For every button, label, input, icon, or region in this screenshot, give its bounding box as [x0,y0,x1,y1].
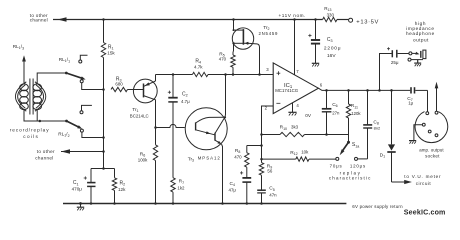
svg-text:S1a: S1a [352,142,360,148]
head core lines [29,79,31,115]
svg-text:Tr1: Tr1 [132,107,138,113]
resistor R3 680 [111,87,128,91]
svg-text:10k: 10k [301,150,309,155]
resistor R11 120k [348,90,350,104]
svg-text:12k: 12k [118,187,126,192]
svg-text:8n2: 8n2 [374,126,381,131]
svg-text:circuit: circuit [416,181,432,186]
capacitor C4 47u [242,177,251,179]
svg-text:470: 470 [234,155,242,160]
svg-text:3k3: 3k3 [291,125,299,130]
junction: to-other-channel node [102,150,105,153]
svg-text:R10: R10 [280,125,287,131]
resistor R12 10k [262,158,296,160]
record/replay head coil left [20,84,29,91]
svg-text:RL1/1: RL1/1 [59,57,70,64]
svg-text:channel: channel [30,17,48,22]
ground (bottom-left) [79,202,82,205]
svg-text:25μ: 25μ [391,60,399,65]
switch S1a [348,135,350,142]
transistor Tr2 2N5459 [232,28,253,49]
svg-text:7: 7 [296,69,299,74]
wire: IC1 output [318,88,410,90]
junction: C1/R2 node [102,167,105,170]
wire: Tr1 collector to Tr3 base (hop over C2 line) [154,126,157,129]
svg-text:coils: coils [23,134,39,139]
wire: pin 7 [294,20,296,76]
capacitor C6 27n [326,90,328,108]
socket ground [414,125,423,141]
svg-text:4.7k: 4.7k [194,64,203,69]
junction: R1/R3/RL1-1 node [102,88,105,91]
wire: C1/R2 node line [91,168,115,170]
wire: R3 to Tr1 base [128,89,144,91]
svg-text:2N5459: 2N5459 [259,31,279,36]
svg-text:BC214LC: BC214LC [130,113,149,118]
terminal +13.5V [349,18,353,22]
svg-text:to other: to other [37,149,55,154]
svg-text:120μs: 120μs [350,163,366,168]
svg-text:1k2: 1k2 [177,186,185,191]
svg-text:15k: 15k [107,50,115,55]
wire: head bottom leads [24,110,40,121]
wire: Tr1 emitter to IC1 pin3 [156,74,193,76]
svg-text:27n: 27n [332,111,340,116]
svg-text:47μ: 47μ [229,187,237,192]
svg-text:RL1/3: RL1/3 [13,44,24,51]
resistor R9 56 [259,163,263,176]
svg-text:socket: socket [425,153,440,158]
relay contact RL1/1 [65,72,68,75]
svg-text:characteristic: characteristic [329,176,372,181]
svg-text:C3: C3 [327,37,333,43]
svg-text:C2: C2 [182,91,188,97]
svg-text:C4: C4 [230,181,235,187]
svg-text:R11: R11 [351,103,358,109]
svg-text:headphone: headphone [406,31,435,36]
svg-text:6: 6 [320,83,323,88]
headphone jack [409,52,412,55]
svg-text:2200μ: 2200μ [324,46,341,52]
relay arm arrow RL1/3 [23,60,25,84]
svg-text:output: output [413,37,429,42]
svg-text:120k: 120k [351,111,361,116]
resistor R13 330 [323,17,337,21]
wire: socket output arrow [436,87,438,111]
svg-text:330: 330 [327,12,335,17]
svg-text:MC1741CG: MC1741CG [275,88,299,93]
svg-text:R8: R8 [235,148,240,154]
resistor R6 100k [155,128,157,145]
record/replay head coil right [33,84,42,91]
capacitor C7 1u [410,87,412,93]
svg-text:to V.U. meter: to V.U. meter [404,174,441,179]
capacitor C3 2200u 16V [314,18,317,21]
svg-text:0V: 0V [305,113,312,118]
resistor R8 470 [247,145,262,147]
capacitor C1 470u [90,169,92,183]
svg-text:16V: 16V [327,53,336,59]
wire: to other channel (top) arrowhead [58,17,67,22]
svg-text:3: 3 [266,67,269,72]
svg-text:impedance: impedance [406,26,434,31]
svg-text:R13: R13 [324,6,331,12]
node: 0V bottom bus [63,203,346,205]
wire: pin 2 + label [262,106,274,163]
svg-text:470μ: 470μ [72,187,83,192]
svg-text:680: 680 [115,81,123,86]
svg-text:4: 4 [296,103,299,108]
resistor R1 15k [101,43,105,58]
head flux arcs right [35,82,46,111]
diode D1 [391,90,393,144]
capacitor C8 8n2 [367,90,369,125]
svg-text:47n: 47n [269,192,277,197]
junction: RL1-2 node [102,136,105,139]
svg-text:record/replay: record/replay [10,127,50,132]
capacitor 25u headphone coupling [380,54,392,91]
svg-text:SeekIC.com: SeekIC.com [404,208,446,216]
svg-text:D1: D1 [380,153,385,159]
wire: head top-right lead [37,73,66,84]
capacitor C5 47n [257,189,266,191]
head flux arcs left [15,82,26,111]
svg-text:4.7μ: 4.7μ [181,99,190,104]
svg-text:1μ: 1μ [408,101,413,106]
svg-text:channel: channel [35,155,53,160]
svg-text:56: 56 [267,169,272,174]
svg-text:C1: C1 [73,180,79,186]
resistor R5 470 [231,55,235,67]
svg-text:Tr3: Tr3 [188,156,194,162]
svg-text:R2: R2 [120,180,126,186]
resistor R4 4.7k [192,72,208,76]
svg-text:+13·5V: +13·5V [356,20,379,26]
resistor R7 1k2 [171,178,175,192]
relay contact RL1/2 [65,120,68,123]
wire: feedback node vertical [260,133,263,136]
wire: pin 4 + ground 0V [292,103,294,112]
svg-text:C5: C5 [269,186,274,192]
wire: to V.U. meter [392,181,405,183]
transistor Tr3 MPSA12 [185,108,227,150]
op-amp IC1 MC1741CG [273,63,318,114]
svg-text:470: 470 [219,56,227,61]
resistor R2 12k [114,169,116,178]
svg-text:+11V nom.: +11V nom. [279,13,306,18]
svg-text:R12: R12 [290,150,297,156]
svg-text:C6: C6 [332,102,337,108]
transistor Tr1 BC214LC [133,79,157,103]
wire: main left vertical [102,18,105,21]
svg-text:amp. output: amp. output [419,147,444,152]
svg-text:6V power supply return: 6V power supply return [352,204,403,209]
svg-text:100k: 100k [138,157,148,162]
node: +11V supply rail (top bus) [53,19,323,21]
wire: to other channel (bottom) [61,151,104,153]
resistor R10 3k3 [262,134,281,136]
svg-text:R7: R7 [179,179,184,185]
svg-text:MPSA12: MPSA12 [198,156,221,161]
capacitor C2 4.7u [172,75,174,98]
svg-text:70μs: 70μs [330,164,343,169]
DIN amp output socket [415,112,448,143]
svg-text:RL1/2: RL1/2 [58,132,69,139]
